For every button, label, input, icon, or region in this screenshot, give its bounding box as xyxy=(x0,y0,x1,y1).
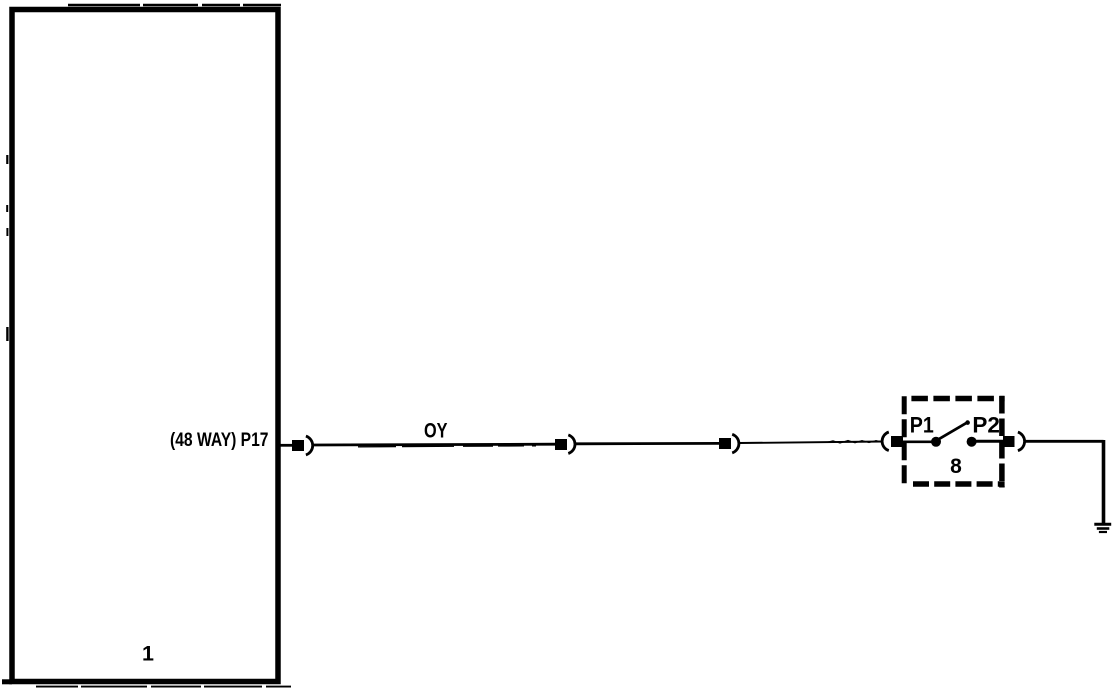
connector C5 pin (square) xyxy=(1003,436,1015,447)
svg-text:1: 1 xyxy=(142,642,154,666)
switch throw contact P2 (dot) xyxy=(967,437,977,447)
ground symbol xyxy=(1094,524,1111,532)
scan specks on left border xyxy=(6,155,8,341)
svg-text:OY: OY xyxy=(424,419,448,443)
scan smear below bottom border xyxy=(36,686,291,688)
connector C4 pin (square) xyxy=(891,436,903,447)
component box 1 (48-way ECU) xyxy=(2,10,278,682)
wire to ground (horizontal) xyxy=(1024,440,1104,443)
wire inside box to switch pole xyxy=(903,440,933,443)
svg-text:(48 WAY) P17: (48 WAY) P17 xyxy=(170,429,269,451)
connector C1 pin (square) xyxy=(292,440,304,451)
connector C3 socket (arc) xyxy=(732,434,739,453)
connector C1 socket (arc) xyxy=(306,436,313,455)
scan smear above top border xyxy=(68,4,281,7)
connector C2 socket (arc) xyxy=(568,435,575,454)
svg-text:P1: P1 xyxy=(910,413,934,438)
wire OY segment 3 (faint) xyxy=(740,441,884,444)
connector C2 pin (square) xyxy=(555,439,567,450)
connector C3 pin (square) xyxy=(719,438,731,449)
switch box 8 (dashed) xyxy=(904,396,1004,488)
svg-text:P2: P2 xyxy=(972,413,1000,438)
wire to ground (vertical drop) xyxy=(1102,440,1106,523)
switch lever (open) xyxy=(937,420,970,440)
svg-text:8: 8 xyxy=(950,455,962,478)
switch pole contact P1 (dot) xyxy=(931,437,941,447)
wire OY segment 2 xyxy=(576,442,720,445)
wire OY segment 1 xyxy=(313,444,556,447)
wire stub from pin P17 xyxy=(278,444,293,447)
connector C5 socket (arc) xyxy=(1018,432,1025,451)
wire from P2 to box edge xyxy=(972,440,1003,443)
connector C4 socket (arc, mirrored) xyxy=(882,432,889,451)
